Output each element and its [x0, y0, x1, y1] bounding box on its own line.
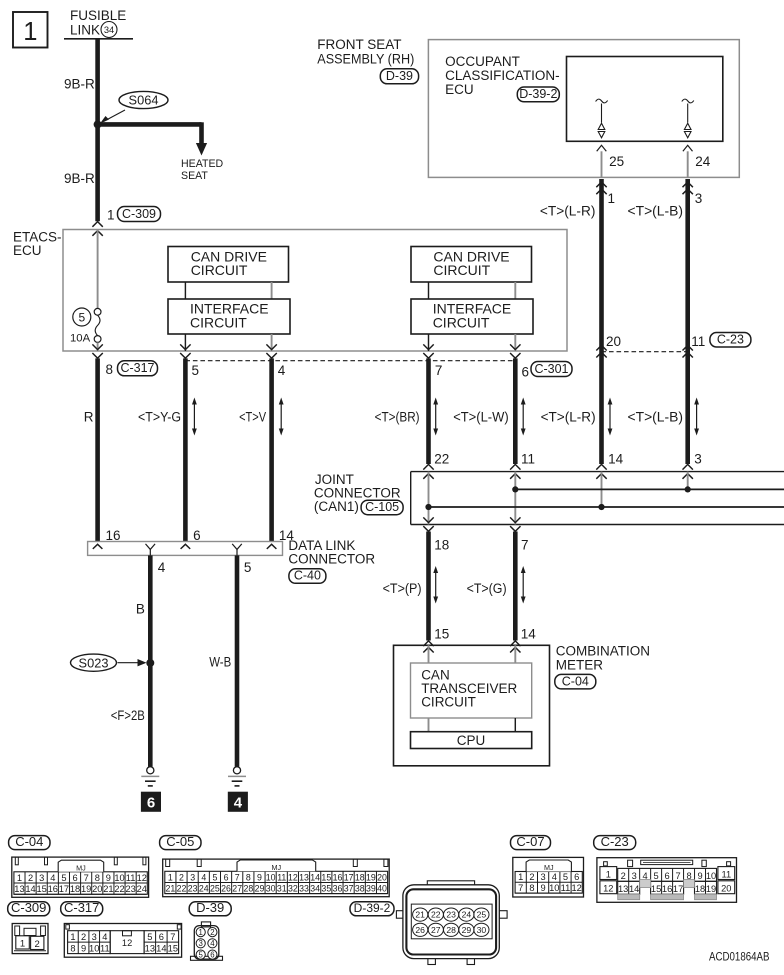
wire label T L-R upper	[540, 204, 596, 219]
inline connector carets D-39 right wire	[683, 182, 693, 194]
svg-text:38: 38	[355, 883, 365, 893]
svg-text:29: 29	[255, 883, 265, 893]
svg-text:5: 5	[212, 872, 217, 882]
connector drawing C-04	[12, 857, 149, 897]
svg-text:26: 26	[221, 883, 231, 893]
svg-text:13: 13	[618, 884, 628, 894]
pin 14 label DLC	[279, 528, 295, 543]
pin 1 label and connector C-309	[107, 207, 161, 223]
svg-text:8: 8	[106, 362, 114, 377]
svg-text:6: 6	[147, 794, 155, 811]
wire branch to heated seat	[98, 122, 208, 155]
wire Y-G vertical	[183, 358, 188, 541]
svg-text:6: 6	[522, 364, 530, 379]
svg-text:FUSIBLE: FUSIBLE	[70, 8, 126, 23]
wires interface left to pins	[185, 334, 271, 351]
svg-text:CIRCUIT: CIRCUIT	[433, 262, 490, 278]
svg-text:9: 9	[541, 883, 546, 893]
svg-text:HEATED: HEATED	[181, 158, 224, 170]
wire R vertical	[95, 358, 100, 541]
JC junction 22	[425, 504, 431, 510]
svg-text:1: 1	[70, 932, 75, 942]
svg-text:17: 17	[673, 884, 683, 894]
svg-text:28: 28	[243, 883, 253, 893]
svg-text:27: 27	[431, 925, 441, 935]
svg-text:C-309: C-309	[122, 207, 156, 221]
pin 5 label DLC	[244, 560, 252, 575]
svg-text:20: 20	[377, 872, 387, 882]
interface circuit box left	[168, 299, 290, 334]
svg-text:7: 7	[521, 538, 529, 553]
svg-text:21: 21	[103, 884, 113, 894]
svg-text:SEAT: SEAT	[181, 170, 208, 182]
inline connector C-23 carets left	[596, 345, 606, 357]
svg-text:29: 29	[462, 925, 472, 935]
svg-text:5: 5	[147, 932, 152, 942]
JC entry carets wire 22	[423, 464, 433, 478]
wire inside ETACS to fuse	[97, 230, 99, 309]
svg-text:4: 4	[201, 872, 206, 882]
svg-text:C-04: C-04	[15, 834, 43, 849]
meter entry carets 14	[510, 641, 520, 653]
pin 24 label	[695, 154, 711, 169]
meter entry carets 15	[423, 641, 433, 653]
connector label C-04 bottom	[9, 834, 50, 850]
svg-text:CIRCUIT: CIRCUIT	[191, 262, 248, 278]
svg-text:4: 4	[210, 939, 215, 948]
arrow L-W	[521, 398, 526, 436]
wire G vertical	[513, 532, 518, 641]
OCC pin 25 fork	[597, 145, 607, 151]
wire label T P	[383, 581, 422, 596]
OCC pin symbol left	[596, 99, 608, 138]
JC junction 14	[598, 504, 604, 510]
svg-text:C-04: C-04	[562, 674, 589, 688]
junction S023	[146, 659, 154, 667]
svg-text:3: 3	[190, 872, 195, 882]
wires interface right to pins	[429, 334, 516, 351]
JC entry carets wire 11	[510, 464, 520, 478]
svg-text:11: 11	[100, 943, 110, 953]
svg-text:20: 20	[721, 884, 731, 894]
wire label T L-B upper	[628, 204, 684, 219]
joint connector box	[411, 472, 784, 525]
pin 8 label and connector C-317	[106, 361, 158, 377]
pin 5 label	[192, 363, 200, 378]
svg-text:<T>V: <T>V	[239, 409, 266, 424]
heated seat label	[181, 158, 224, 182]
svg-text:37: 37	[344, 883, 354, 893]
svg-text:28: 28	[446, 925, 456, 935]
ETACS exit carets pin 5	[180, 344, 190, 358]
svg-text:22: 22	[434, 452, 449, 467]
wire L-R vertical	[599, 179, 604, 464]
svg-text:W-B: W-B	[209, 654, 231, 669]
svg-text:C-309: C-309	[11, 900, 46, 915]
occupant classification ECU box	[567, 57, 723, 142]
combination meter box	[394, 645, 550, 766]
svg-text:10: 10	[549, 883, 559, 893]
svg-text:<T>(L-B): <T>(L-B)	[628, 204, 684, 219]
svg-text:15: 15	[321, 872, 331, 882]
svg-text:16: 16	[48, 884, 58, 894]
svg-text:31: 31	[277, 883, 287, 893]
svg-text:5: 5	[199, 950, 204, 959]
svg-text:34: 34	[104, 25, 114, 35]
svg-text:6: 6	[193, 528, 201, 543]
connector drawing C-07	[513, 857, 584, 897]
pin 1 label right	[608, 191, 616, 206]
JC exit carets wire 7	[510, 517, 520, 531]
svg-text:4: 4	[234, 794, 243, 811]
svg-text:9B-R: 9B-R	[64, 77, 95, 92]
index box 1	[13, 12, 48, 48]
dashed connector line C-40 row	[185, 360, 515, 362]
DLC pin 4 fork	[146, 544, 156, 556]
wire label 9B-R lower	[64, 171, 95, 186]
svg-text:5: 5	[244, 560, 252, 575]
interface circuit box right	[411, 299, 533, 334]
svg-text:1: 1	[168, 872, 173, 882]
svg-text:12: 12	[137, 873, 147, 883]
JC entry carets wire 3	[683, 464, 693, 478]
svg-text:13: 13	[299, 872, 309, 882]
svg-text:10: 10	[266, 872, 276, 882]
svg-text:7: 7	[170, 932, 175, 942]
svg-text:40: 40	[377, 883, 387, 893]
svg-text:D-39-2: D-39-2	[354, 901, 391, 915]
connector label C-309 bottom	[8, 900, 50, 916]
svg-text:CLASSIFICATION-: CLASSIFICATION-	[445, 68, 560, 83]
svg-text:R: R	[84, 409, 94, 424]
svg-text:9: 9	[257, 872, 262, 882]
svg-text:C-23: C-23	[601, 834, 629, 849]
pin 11 label JC	[521, 452, 535, 467]
svg-text:6: 6	[72, 873, 77, 883]
pin 20 label	[606, 334, 621, 349]
svg-text:<T>(L-R): <T>(L-R)	[540, 204, 596, 219]
svg-text:15: 15	[168, 943, 178, 953]
pin 22 label	[434, 452, 449, 467]
svg-text:10: 10	[114, 873, 124, 883]
connector label C-40	[289, 569, 326, 584]
svg-text:<T>(L-W): <T>(L-W)	[453, 409, 509, 424]
svg-text:33: 33	[299, 883, 309, 893]
svg-text:3: 3	[92, 932, 97, 942]
pin 25 label	[609, 154, 624, 169]
connector drawing C-05	[163, 859, 390, 897]
arrow P	[433, 566, 438, 604]
JC exit carets wire 18	[423, 517, 433, 531]
wire label T L-R mid	[541, 409, 596, 424]
svg-text:24: 24	[462, 910, 472, 920]
svg-text:18: 18	[355, 872, 365, 882]
svg-text:23: 23	[125, 884, 135, 894]
wires transceiver to CPU	[429, 718, 516, 732]
svg-text:1: 1	[518, 872, 523, 882]
svg-text:ECU: ECU	[445, 82, 474, 97]
connector drawing D-39	[191, 922, 223, 960]
ground ref 4	[228, 792, 247, 811]
svg-text:1: 1	[23, 18, 37, 46]
pin 11 label and connector C-23 ref	[691, 332, 751, 349]
splice S023	[71, 654, 147, 671]
wires between CAN drive and interface left	[185, 282, 271, 299]
svg-text:25: 25	[210, 883, 220, 893]
pin 18 label	[434, 538, 449, 553]
wire label B	[136, 602, 145, 617]
JC internal wire 3 stub	[687, 472, 689, 490]
DLC pin 5 fork	[232, 544, 242, 556]
svg-text:36: 36	[333, 883, 343, 893]
svg-text:C-23: C-23	[717, 332, 744, 346]
svg-text:18: 18	[695, 884, 705, 894]
wire 9B-R from fusible link	[95, 39, 100, 222]
svg-text:C-40: C-40	[294, 569, 321, 583]
svg-text:11: 11	[521, 452, 535, 467]
svg-text:6: 6	[224, 872, 229, 882]
arrow Y-G	[192, 398, 197, 436]
arrow G	[521, 566, 526, 604]
svg-text:<T>(BR): <T>(BR)	[375, 409, 420, 424]
svg-text:7: 7	[675, 871, 680, 881]
pin 6 label and connector C-301	[522, 362, 573, 380]
svg-text:7: 7	[235, 872, 240, 882]
pin 1 terminal carets	[92, 222, 102, 236]
svg-text:17: 17	[59, 884, 69, 894]
svg-text:8: 8	[529, 883, 534, 893]
connector drawing C-317	[64, 924, 181, 958]
svg-text:32: 32	[288, 883, 298, 893]
svg-text:C-105: C-105	[365, 500, 399, 514]
svg-text:8: 8	[246, 872, 251, 882]
DLC pin 6 caret	[181, 544, 191, 549]
connector drawing C-23	[597, 858, 737, 903]
svg-text:D-39: D-39	[196, 900, 224, 915]
svg-text:3: 3	[39, 873, 44, 883]
pin 14 label JC	[608, 452, 624, 467]
svg-text:C-317: C-317	[120, 361, 154, 375]
ETACS exit carets pin 7	[423, 344, 433, 358]
svg-text:22: 22	[431, 910, 441, 920]
connector label C-23 bottom	[594, 834, 636, 850]
svg-text:2: 2	[28, 873, 33, 883]
svg-text:1: 1	[20, 939, 25, 950]
svg-text:2: 2	[179, 872, 184, 882]
connector label C-317 bottom	[61, 900, 103, 916]
wire label T G	[467, 581, 507, 596]
ground symbol left	[141, 767, 159, 786]
svg-text:14: 14	[25, 884, 35, 894]
svg-text:12: 12	[572, 883, 582, 893]
inline connector C-23 carets right	[683, 345, 693, 357]
svg-text:24: 24	[199, 883, 209, 893]
svg-text:3: 3	[632, 871, 637, 881]
svg-text:39: 39	[366, 883, 376, 893]
data link connector label	[288, 538, 375, 567]
svg-text:(CAN1): (CAN1)	[314, 499, 359, 514]
svg-text:14: 14	[521, 626, 537, 641]
svg-text:FRONT SEAT: FRONT SEAT	[317, 37, 401, 52]
svg-text:1: 1	[107, 208, 115, 223]
pin 14 label meter	[521, 626, 537, 641]
svg-text:2: 2	[529, 872, 534, 882]
svg-text:21: 21	[415, 910, 425, 920]
svg-text:19: 19	[706, 884, 716, 894]
ground symbol right	[228, 767, 246, 786]
wire from fuse to pin 8	[97, 342, 99, 351]
ETACS-ECU box	[63, 230, 567, 352]
fusible link bus bar	[64, 38, 133, 40]
pin 6 label DLC	[193, 528, 201, 543]
svg-text:14: 14	[310, 872, 320, 882]
wire L-B vertical	[685, 179, 690, 464]
svg-text:23: 23	[188, 883, 198, 893]
svg-text:24: 24	[695, 154, 711, 169]
svg-text:20: 20	[606, 334, 621, 349]
svg-text:8: 8	[70, 943, 75, 953]
svg-text:7: 7	[518, 883, 523, 893]
ETACS-ECU label	[13, 230, 62, 259]
CPU box	[411, 732, 532, 749]
svg-text:C-301: C-301	[534, 362, 568, 376]
arrow L-R mid	[608, 398, 613, 436]
JC junction 3	[685, 486, 691, 492]
JC entry carets wire 14	[596, 464, 606, 478]
wire pin 24 inside	[687, 151, 689, 177]
JC bus line CAN-L	[429, 506, 784, 508]
svg-text:2: 2	[35, 939, 40, 950]
ETACS exit carets pin 4	[266, 344, 276, 358]
OCC pin symbol right	[682, 99, 694, 138]
ETACS exit carets pin 8	[92, 344, 102, 358]
svg-text:4: 4	[552, 872, 557, 882]
svg-text:MJ: MJ	[272, 863, 282, 872]
svg-text:14: 14	[629, 884, 639, 894]
pin 3 label JC	[694, 452, 702, 467]
svg-text:10A: 10A	[70, 333, 91, 345]
svg-text:35: 35	[321, 883, 331, 893]
svg-text:11: 11	[721, 869, 731, 879]
svg-text:30: 30	[266, 883, 276, 893]
splice S064	[100, 91, 168, 123]
arrow L-B mid	[694, 398, 699, 436]
svg-text:ECU: ECU	[13, 243, 42, 258]
arrow BR	[433, 398, 438, 436]
svg-text:5: 5	[61, 873, 66, 883]
svg-text:6: 6	[210, 950, 214, 959]
svg-text:11: 11	[277, 872, 286, 882]
JC bus line CAN-H	[515, 488, 784, 490]
svg-text:6: 6	[574, 872, 579, 882]
svg-text:3: 3	[694, 452, 702, 467]
connector label C-04 right	[555, 674, 596, 689]
svg-text:18: 18	[434, 538, 449, 553]
data link connector box	[88, 542, 283, 556]
dashed line C-23	[602, 351, 688, 353]
svg-text:5: 5	[563, 872, 568, 882]
svg-text:16: 16	[333, 872, 343, 882]
JC internal wire 22-18	[428, 472, 430, 525]
drawing number	[709, 950, 770, 964]
svg-text:1: 1	[606, 869, 611, 879]
svg-text:21: 21	[165, 883, 175, 893]
connector label D-39-2 top	[517, 87, 559, 102]
front seat assembly box	[428, 40, 739, 178]
svg-text:34: 34	[310, 883, 320, 893]
svg-text:CONNECTOR: CONNECTOR	[288, 552, 375, 567]
wire label R	[84, 409, 94, 424]
joint connector label	[314, 472, 401, 514]
pin 7 label below JC	[521, 538, 529, 553]
svg-text:1: 1	[17, 873, 22, 883]
svg-text:30: 30	[477, 925, 487, 935]
wire W-B vertical	[235, 555, 240, 766]
svg-text:18: 18	[70, 884, 80, 894]
svg-text:5: 5	[654, 871, 659, 881]
svg-text:8: 8	[95, 873, 100, 883]
wire label 9B-R upper	[64, 77, 95, 92]
svg-text:<T>(L-B): <T>(L-B)	[628, 409, 684, 424]
svg-text:19: 19	[366, 872, 376, 882]
fusible link label	[70, 8, 126, 38]
wire B vertical	[148, 555, 153, 766]
svg-text:26: 26	[415, 925, 425, 935]
connector drawing D-39-2	[396, 881, 507, 965]
occupant classification ECU label	[445, 54, 560, 97]
svg-text:4: 4	[50, 873, 55, 883]
svg-text:1: 1	[199, 928, 203, 937]
svg-text:14: 14	[608, 452, 624, 467]
svg-text:MJ: MJ	[76, 863, 86, 872]
fuse number circle 5	[73, 308, 91, 326]
pin 7 label	[435, 363, 443, 378]
JC internal wire 11-7	[514, 472, 516, 525]
JC junction 11	[512, 486, 518, 492]
inline connector carets D-39 left wire	[596, 182, 606, 194]
pin 15 label	[434, 626, 449, 641]
svg-text:ACD01864AB: ACD01864AB	[709, 950, 770, 964]
CAN drive circuit box left	[168, 247, 289, 283]
ETACS exit carets pin 6	[510, 344, 520, 358]
svg-text:5: 5	[192, 363, 200, 378]
svg-text:7: 7	[84, 873, 89, 883]
svg-text:LINK: LINK	[70, 23, 100, 38]
wire V vertical	[269, 358, 274, 541]
pin 4 label	[278, 363, 286, 378]
front seat assembly label	[317, 37, 414, 67]
svg-text:16: 16	[662, 884, 672, 894]
svg-text:17: 17	[344, 872, 354, 882]
svg-text:C-05: C-05	[166, 834, 194, 849]
JC internal wire 14 stub	[601, 472, 603, 507]
connector label C-07 bottom	[511, 834, 551, 850]
svg-text:9: 9	[81, 943, 86, 953]
svg-text:22: 22	[177, 883, 187, 893]
svg-text:25: 25	[609, 154, 624, 169]
wire label T BR	[375, 409, 420, 424]
wire P vertical	[426, 532, 431, 641]
svg-text:<T>Y-G: <T>Y-G	[138, 409, 181, 424]
wire pin 25 inside	[601, 151, 603, 177]
CAN drive circuit box right	[411, 247, 532, 283]
svg-text:CIRCUIT: CIRCUIT	[421, 695, 476, 710]
svg-text:13: 13	[14, 884, 24, 894]
wire BR vertical	[426, 358, 431, 464]
svg-text:OCCUPANT: OCCUPANT	[445, 54, 520, 69]
wire label F 2B	[111, 708, 145, 723]
OCC pin 24 fork	[683, 145, 693, 151]
